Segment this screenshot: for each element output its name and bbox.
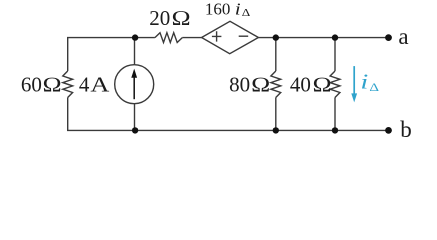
wire dependent source to terminal a <box>258 37 388 39</box>
resistor R4 40 ohm zigzag <box>330 71 340 98</box>
svg-text:Ω: Ω <box>312 74 332 97</box>
label 160 delta subscript <box>242 6 251 19</box>
svg-text:i: i <box>235 0 241 19</box>
svg-text:a: a <box>398 24 408 49</box>
current source I1 bottom lead <box>134 104 136 131</box>
current source I1 top lead <box>134 38 136 65</box>
current source I1 circle <box>115 65 154 104</box>
svg-text:Δ: Δ <box>369 80 379 93</box>
svg-text:Ω: Ω <box>251 74 271 97</box>
svg-text:i: i <box>360 71 368 94</box>
i-delta current arrow shaft (cyan) <box>353 66 355 94</box>
label 160 i variable <box>235 0 241 19</box>
resistor R3 bottom lead <box>275 98 277 131</box>
i-delta current arrow head (cyan) <box>351 93 357 102</box>
wire top segment with top-left corner <box>68 38 155 71</box>
terminal a dot <box>385 34 392 41</box>
resistor R4 40 ohm top lead <box>334 38 336 71</box>
svg-text:Ω: Ω <box>171 7 191 30</box>
current source I1 arrow head <box>131 69 137 78</box>
node dot top 40 ohm junction <box>332 34 338 40</box>
current source I1 arrow shaft <box>133 77 135 99</box>
label i-delta subscript (cyan) <box>369 80 379 93</box>
svg-text:4: 4 <box>79 73 90 97</box>
svg-text:60: 60 <box>21 73 42 97</box>
label 80 ohm unit <box>251 74 271 97</box>
node dot top current source junction <box>132 34 138 40</box>
left wire lower segment and bottom wire <box>68 98 389 131</box>
node dot bottom current source junction <box>132 127 138 133</box>
label 60 ohm unit <box>42 74 62 97</box>
label 40 ohm unit <box>312 74 332 97</box>
plus sign inside U1 <box>212 31 222 41</box>
svg-text:b: b <box>400 117 412 142</box>
svg-text:A: A <box>90 74 109 97</box>
resistor R4 bottom lead <box>334 98 336 131</box>
label i-delta variable (cyan) <box>360 71 368 94</box>
node dot bottom 40 ohm junction <box>332 127 338 133</box>
svg-text:20: 20 <box>149 6 170 30</box>
resistor R1 20 ohm zigzag <box>155 33 182 43</box>
resistor R3 80 ohm top lead <box>275 38 277 71</box>
svg-text:80: 80 <box>229 73 250 97</box>
minus sign inside U1 <box>239 35 249 37</box>
svg-text:40: 40 <box>290 73 311 97</box>
node dot top 80 ohm junction <box>273 34 279 40</box>
dependent voltage source U1 diamond <box>202 21 259 53</box>
label 4 A unit <box>90 74 109 97</box>
svg-text:160: 160 <box>205 0 231 18</box>
node dot bottom 80 ohm junction <box>273 127 279 133</box>
svg-text:Ω: Ω <box>42 74 62 97</box>
resistor R2 60 ohm zigzag <box>63 71 73 98</box>
resistor R3 80 ohm zigzag <box>271 71 281 98</box>
wire R1 to dependent source <box>182 37 201 39</box>
terminal b dot <box>385 127 392 134</box>
svg-text:Δ: Δ <box>242 6 251 19</box>
label 20 ohm unit <box>171 7 191 30</box>
